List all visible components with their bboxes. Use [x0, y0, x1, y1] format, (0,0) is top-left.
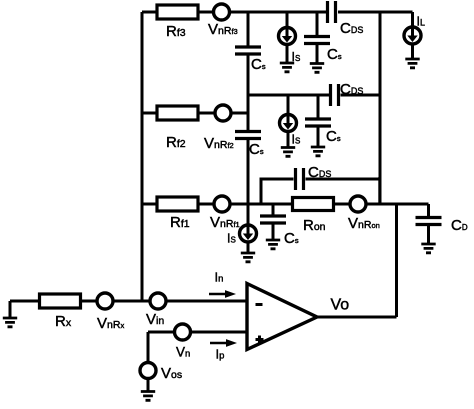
svg-text:Vo: Vo [331, 297, 350, 314]
svg-text:IL: IL [417, 15, 426, 29]
